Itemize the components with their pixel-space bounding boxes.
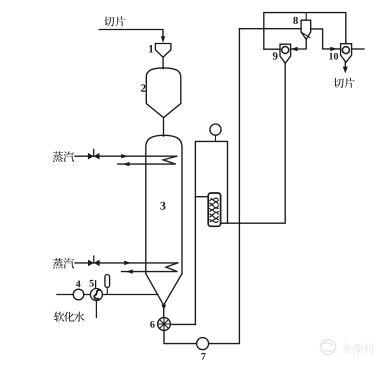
arrowhead down above pump 6: [161, 305, 166, 310]
wire: vessel wall to sight glass: [195, 196, 208, 198]
sight glass / filter box: [208, 193, 220, 226]
arrowhead left on upper condensate return: [123, 162, 130, 166]
wire: sight glass to cyclone 9 downcomer: [221, 63, 286, 223]
arrowhead left into cyclone 9: [291, 47, 298, 51]
arrowhead right on upper steam inlet: [121, 154, 128, 158]
label 蒸汽 (upper steam): [53, 151, 64, 162]
column 3 bottom cone: [146, 274, 182, 306]
label 1: [149, 45, 153, 52]
blower 7 (circle): [197, 338, 209, 350]
label 3: [160, 202, 165, 210]
column 3 (drying tower): [146, 135, 182, 273]
cyclone 10: [341, 44, 352, 63]
wire: cone tip down to pump 6: [163, 305, 165, 317]
wire: hopper 2 to column 3: [163, 118, 165, 137]
wire: feed line into feeder 1: [99, 30, 163, 38]
lower heating coil zigzag: [122, 263, 178, 272]
wire: cyclone 10 gas outlet right: [352, 48, 364, 50]
wire: blower 7 to riser pipe: [209, 29, 240, 344]
label 切片 feed (top left): [104, 17, 114, 27]
cyclone 9: [280, 44, 291, 63]
wire: cyclone 10 product out: [344, 62, 346, 67]
wire: riser top to separator 8: [239, 28, 301, 30]
heat exchanger 5 (circle with S): [90, 289, 102, 301]
valve on upper steam line: [88, 153, 100, 160]
wire: gas line from 9 up over to 8 and 10: [264, 13, 346, 50]
thermometer well: [105, 275, 110, 288]
valve on lower steam line: [88, 260, 100, 267]
arrowhead down (product 切片): [343, 67, 348, 74]
hopper 2: [146, 68, 181, 118]
label 蒸汽 (lower steam): [53, 258, 64, 269]
separator 8: [305, 13, 307, 21]
wire: separator 8 underflow into cyclone 9: [291, 40, 307, 50]
wire: pump 6 down to transfer line: [164, 330, 197, 343]
wire: feeder 1 to hopper 2: [162, 57, 164, 68]
rotary feeder 1: [155, 44, 171, 58]
gauge on vessel top: [215, 135, 217, 141]
pump 6 (circle with spokes): [158, 318, 171, 331]
arrowhead down into feeder 1: [161, 36, 165, 43]
wire: lower steam inlet: [75, 262, 178, 264]
label 2: [141, 84, 146, 91]
wire: separator 8 side outlet to cyclone 10: [311, 29, 341, 49]
watermark logo: [321, 340, 336, 355]
filter media speckle: [210, 198, 219, 222]
wire: upper steam inlet: [75, 155, 177, 157]
vessel (standpipe): [195, 141, 227, 324]
upper heating coil zigzag: [118, 156, 177, 164]
arrowhead right into cyclone 10: [330, 47, 337, 51]
label 软化水: [54, 312, 64, 322]
watermark text 金溧利: [341, 343, 352, 353]
wire: pump 6 outlet to vessel riser: [170, 323, 195, 325]
arrowhead right on lower steam inlet: [124, 261, 131, 265]
label 切片 (product, right): [334, 78, 344, 88]
wire: softened water line: [57, 294, 158, 296]
arrowhead left on lower condensate return: [126, 269, 133, 273]
meter 4 (circle): [73, 289, 84, 300]
